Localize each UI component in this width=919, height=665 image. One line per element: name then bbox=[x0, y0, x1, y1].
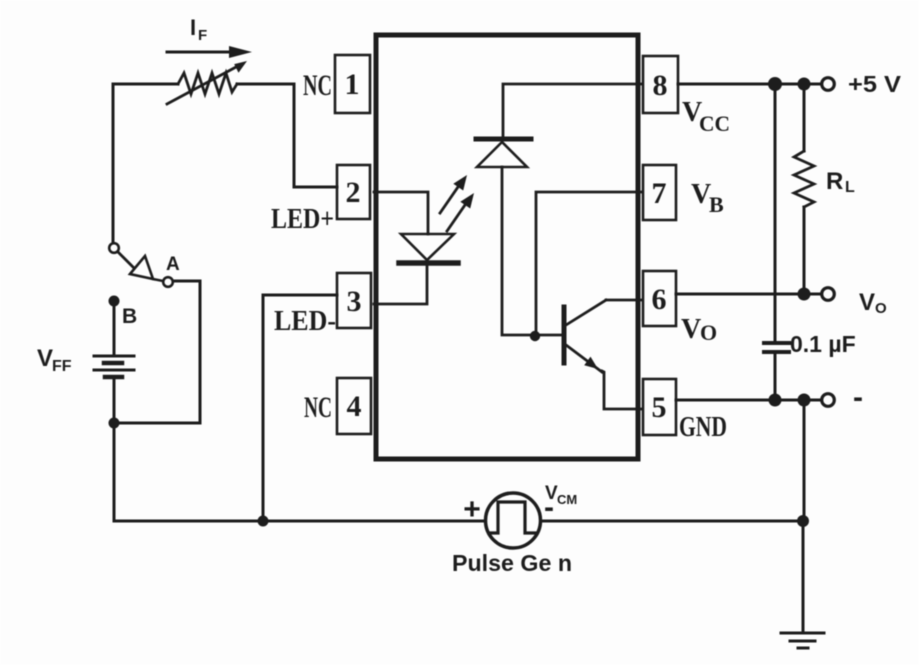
svg-text:V: V bbox=[859, 289, 875, 316]
capacitor C1 0.1uF bbox=[764, 84, 789, 400]
svg-text:V: V bbox=[37, 345, 53, 372]
svg-text:I: I bbox=[190, 15, 196, 40]
pin box 6 bbox=[643, 271, 676, 326]
svg-text:3: 3 bbox=[347, 285, 362, 318]
variable resistor R1 bbox=[167, 61, 247, 104]
svg-text:LED+: LED+ bbox=[271, 204, 334, 235]
wire bottom rail bbox=[114, 520, 803, 523]
wire switch A to battery bottom bbox=[119, 281, 200, 423]
LED D1 internal bbox=[399, 234, 458, 263]
wire collector to pin6 bbox=[606, 299, 641, 302]
svg-text:L: L bbox=[845, 179, 855, 196]
wire resistor to pin2 bbox=[237, 84, 337, 187]
svg-text:2: 2 bbox=[346, 176, 361, 209]
label VB pin7 bbox=[691, 179, 724, 217]
ground bbox=[781, 633, 824, 648]
battery VFF bbox=[94, 303, 134, 423]
svg-text:6: 6 bbox=[652, 283, 667, 316]
svg-text:NC: NC bbox=[304, 391, 332, 424]
svg-text:F: F bbox=[198, 27, 207, 44]
junction gnd-cap bbox=[769, 394, 782, 407]
svg-text:0.1 µF: 0.1 µF bbox=[790, 331, 856, 357]
svg-text:A: A bbox=[166, 254, 180, 275]
svg-text:O: O bbox=[875, 300, 887, 317]
label VFF bbox=[37, 345, 72, 375]
svg-text:LED-: LED- bbox=[274, 306, 336, 337]
svg-text:+5 V: +5 V bbox=[848, 71, 902, 97]
label IF bbox=[190, 15, 207, 44]
light arrow 2 bbox=[447, 193, 474, 231]
pin box 4 bbox=[337, 378, 371, 434]
svg-text:R: R bbox=[826, 168, 843, 195]
svg-text:5: 5 bbox=[652, 391, 667, 424]
terminal VO bbox=[822, 288, 835, 301]
wire pin8 outer to +5V bbox=[678, 83, 822, 86]
pin box 7 bbox=[643, 165, 676, 220]
junction VCC-RL bbox=[798, 78, 811, 91]
pin box 1 bbox=[335, 55, 370, 113]
svg-text:1: 1 bbox=[345, 68, 360, 101]
junction rail-LED bbox=[258, 516, 269, 527]
op-to-coupler IC body U1 bbox=[376, 35, 638, 459]
wire top-left bbox=[113, 84, 178, 243]
resistor RL bbox=[794, 84, 814, 295]
svg-text:B: B bbox=[122, 305, 137, 328]
svg-text:7: 7 bbox=[652, 177, 667, 210]
svg-text:B: B bbox=[709, 192, 724, 217]
photodiode D2 internal bbox=[476, 139, 531, 167]
label RL bbox=[826, 168, 855, 196]
wire pin8 internal bbox=[503, 84, 641, 136]
pin box 3 bbox=[337, 273, 371, 328]
node B terminal dot bbox=[109, 296, 120, 307]
wire pin5 outer bbox=[676, 399, 822, 402]
terminal +5V bbox=[822, 78, 835, 91]
wire pin7 internal bbox=[536, 192, 641, 335]
pin box 5 bbox=[643, 379, 676, 435]
wire pin2 internal bbox=[374, 192, 428, 234]
pin box 2 bbox=[337, 165, 370, 219]
junction VO-RL bbox=[798, 288, 811, 301]
wire battery to bottom rail bbox=[113, 423, 116, 521]
svg-text:Pulse Ge n: Pulse Ge n bbox=[452, 550, 572, 576]
terminal minus bbox=[822, 394, 835, 407]
transistor Q1 bbox=[564, 300, 606, 372]
junction gnd-down bbox=[798, 394, 811, 407]
svg-text:8: 8 bbox=[653, 69, 668, 102]
pin box 8 bbox=[643, 56, 678, 113]
light arrow 1 bbox=[440, 175, 467, 213]
wire photodiode to base bbox=[502, 167, 562, 335]
svg-text:CM: CM bbox=[557, 492, 577, 507]
label VO terminal bbox=[859, 289, 887, 317]
svg-text:-: - bbox=[853, 381, 863, 414]
junction VCC-cap bbox=[768, 77, 782, 91]
pulse generator VCM bbox=[486, 493, 541, 548]
svg-text:NC: NC bbox=[303, 69, 332, 102]
IF current arrow bbox=[167, 46, 252, 58]
junction rail-right bbox=[797, 515, 809, 527]
svg-text:FF: FF bbox=[52, 358, 72, 375]
svg-text:GND: GND bbox=[679, 412, 727, 443]
junction base node bbox=[530, 331, 540, 341]
svg-text:4: 4 bbox=[347, 390, 362, 423]
label VCC pin8 bbox=[682, 97, 730, 136]
wire LED to pin3 internal bbox=[374, 266, 427, 304]
wire rail to ground bbox=[802, 521, 805, 633]
wire minus to rail bbox=[803, 400, 806, 521]
wire pin6 outer to VO bbox=[676, 293, 822, 296]
label VO pin6 bbox=[681, 314, 717, 345]
svg-text:CC: CC bbox=[699, 111, 730, 136]
label VCM bbox=[545, 483, 577, 507]
svg-text:V: V bbox=[681, 314, 701, 345]
svg-text:+: + bbox=[463, 493, 481, 526]
wire pin3 outer bbox=[263, 295, 337, 521]
switch S1 bbox=[109, 243, 173, 287]
junction battery bottom bbox=[109, 418, 120, 429]
svg-text:O: O bbox=[700, 320, 717, 345]
wire emitter to pin5 bbox=[602, 371, 641, 409]
